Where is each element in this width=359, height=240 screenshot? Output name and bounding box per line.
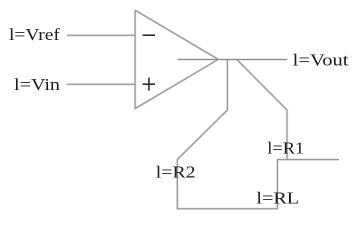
svg-text:l=Vin: l=Vin bbox=[14, 75, 60, 94]
svg-text:l=Vref: l=Vref bbox=[9, 25, 60, 44]
svg-text:l=RL: l=RL bbox=[256, 189, 299, 208]
svg-text:l=R2: l=R2 bbox=[156, 163, 196, 182]
svg-text:l=R1: l=R1 bbox=[267, 139, 304, 158]
svg-text:l=Vout: l=Vout bbox=[293, 51, 349, 70]
